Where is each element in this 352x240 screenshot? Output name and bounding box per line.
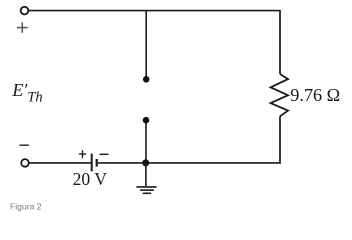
label minus (battery polarity): [100, 153, 109, 155]
wire right upper (top corner to resistor): [279, 11, 281, 74]
terminal a (open circle top-left): [21, 7, 29, 15]
junction node (bottom wire / ground): [142, 159, 149, 166]
label plus (E'Th polarity): [17, 22, 28, 32]
wire middle upper (top wire to switch top node): [145, 11, 147, 78]
battery 20V long plate: [91, 154, 93, 172]
resistor R 9.76 ohm: [271, 74, 288, 116]
terminal b (open circle bottom-left): [21, 159, 29, 167]
label plus (battery polarity): [79, 150, 86, 158]
ground: [136, 163, 156, 193]
wire bottom-left (terminal b to battery): [29, 162, 91, 164]
node switch bottom: [143, 117, 150, 124]
svg-text:9.76 Ω: 9.76 Ω: [290, 85, 340, 105]
label minus (E'Th polarity): [20, 144, 30, 146]
svg-text:Figura 2: Figura 2: [10, 202, 42, 212]
wire bottom (battery to right corner): [98, 162, 281, 164]
wire right lower (resistor to bottom corner): [279, 116, 281, 163]
svg-text:20 V: 20 V: [73, 169, 108, 189]
wire middle lower (switch bottom node to bottom wire): [145, 121, 147, 163]
wire top: [29, 10, 281, 12]
node switch top: [143, 76, 150, 83]
battery 20V short plate: [96, 159, 98, 167]
